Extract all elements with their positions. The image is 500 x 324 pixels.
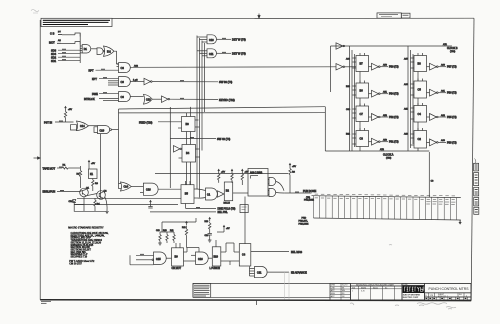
wire C9 out [131, 81, 145, 83]
svg-text:PST IN: PST IN [44, 121, 52, 124]
strip left end [192, 283, 194, 297]
wire E2 out down to C8 [114, 51, 119, 64]
svg-text:ELECTRIC CORP: ELECTRIC CORP [403, 297, 419, 299]
svg-text:R1: R1 [63, 164, 67, 166]
svg-text:C8: C8 [431, 181, 435, 183]
svg-text:A61: A61 [441, 90, 446, 93]
svg-text:C15: C15 [156, 258, 161, 261]
svg-text:C4: C4 [242, 254, 246, 257]
wire B3 to B4 [187, 132, 191, 145]
resistor R12 [182, 222, 188, 248]
wire to inverter [152, 98, 161, 100]
svg-text:MULTI: MULTI [224, 203, 231, 205]
title text PUNCH CONTROL MTRS [425, 283, 471, 292]
wire emitter rail [74, 203, 107, 212]
input row MOT [49, 39, 80, 44]
bus vertical lines [197, 36, 205, 198]
connecting wires bottom row [130, 243, 234, 265]
+5V supply [88, 161, 95, 170]
wire stubs into gate C10 [197, 37, 207, 42]
and gate D1 [82, 45, 91, 53]
svg-text:C9: C9 [121, 80, 125, 84]
+5V pullup R6 [231, 169, 233, 183]
svg-text:SEC/PRES T10: SEC/PRES T10 [71, 256, 88, 259]
svg-text:CR MOT: CR MOT [172, 267, 182, 270]
svg-text:KB ADVANCE: KB ADVANCE [291, 271, 307, 274]
svg-text:C06: C06 [346, 109, 351, 111]
buffer B8 output [427, 63, 457, 70]
input labels KPT row [92, 78, 119, 85]
transistor Q2 [97, 191, 108, 200]
wire D1 out [91, 48, 97, 50]
BEL PNL label row [150, 211, 228, 214]
svg-text:C10: C10 [209, 39, 214, 42]
merge wires [276, 182, 285, 194]
wire B9 to E4 [187, 260, 196, 262]
svg-text:C4: C4 [418, 112, 422, 116]
svg-text:CR1: CR1 [69, 201, 74, 203]
svg-text:+5V: +5V [221, 172, 225, 174]
svg-text:PB4 (T2): PB4 (T2) [389, 93, 399, 96]
note box [41, 18, 112, 26]
ladder end arrow [459, 220, 462, 225]
+5V pullup R5 [218, 169, 226, 183]
resistor R3 [92, 179, 99, 192]
wire row links left column [359, 74, 361, 151]
input grid gate E5 [250, 267, 255, 277]
svg-text:D1: D1 [84, 48, 88, 51]
and gate E4 [191, 248, 208, 265]
svg-text:C1: C1 [207, 194, 211, 197]
flip-flop B6 [346, 81, 369, 101]
+5V pullup [64, 107, 72, 123]
wire stubs into gate C11 [197, 51, 207, 56]
buffer B6 output [369, 90, 399, 97]
svg-text:PB8 (T2): PB8 (T2) [389, 66, 399, 69]
svg-text:A14 C BAR: A14 C BAR [250, 172, 262, 175]
wire C10 out to DET label [217, 38, 246, 42]
parts list block [193, 283, 211, 297]
svg-text:L PUNCH: L PUNCH [210, 267, 221, 270]
svg-text:RPT: RPT [89, 69, 94, 72]
inverter C21 on clock line [336, 43, 345, 49]
clock feed vertical to ladder [429, 152, 434, 197]
microfilm tick row [425, 297, 471, 300]
svg-text:SW 30 (T4): SW 30 (T4) [219, 80, 232, 84]
svg-text:A53: A53 [383, 139, 388, 142]
svg-text:(T10): (T10) [386, 158, 391, 160]
flip-flop B3 [178, 107, 200, 132]
svg-text:C5: C5 [418, 88, 422, 92]
flip-flop B4 [179, 145, 201, 163]
FEED label [139, 122, 182, 125]
inverter C12 [144, 78, 152, 85]
bottom tick below frame [256, 300, 258, 305]
svg-text:A51: A51 [383, 91, 388, 94]
buffer C7 output [369, 114, 399, 121]
input labels DWE row [84, 93, 119, 101]
svg-text:CLOCK A: CLOCK A [383, 154, 394, 157]
or gate C18 [140, 183, 158, 195]
PUN DONE wire [285, 190, 317, 202]
inverter C20 [174, 146, 182, 153]
svg-text:A50: A50 [383, 64, 388, 67]
svg-text:PRD: PRD [302, 218, 307, 220]
wire CLOCK B [331, 43, 458, 92]
wire CLOCK A [325, 107, 429, 160]
svg-text:TAPE MOT: TAPE MOT [43, 167, 56, 170]
svg-text:CM SI-1757: CM SI-1757 [69, 263, 82, 266]
svg-text:ERRL/PUN: ERRL/PUN [43, 191, 56, 194]
svg-text:R8: R8 [292, 172, 296, 174]
or gate C13 [144, 94, 153, 104]
relay coil box K1 [89, 169, 98, 179]
frame left border [39, 20, 41, 300]
flip-flop C5 [404, 79, 427, 101]
svg-text:83096: 83096 [361, 287, 366, 289]
approvals section [330, 283, 351, 300]
svg-text:MOT: MOT [49, 40, 55, 44]
svg-text:C18: C18 [146, 189, 151, 192]
resistor R2 [77, 166, 82, 188]
buffer B7 output [369, 63, 399, 70]
svg-text:DNE PULS (T9): DNE PULS (T9) [218, 208, 236, 211]
horizontal rail upper [155, 173, 288, 175]
left margin arrow [34, 157, 41, 159]
and gate D2 [97, 48, 105, 55]
svg-text:PRD,DNE: PRD,DNE [304, 200, 314, 202]
svg-text:JM: JM [342, 296, 345, 298]
svg-text:INTRLCK: INTRLCK [84, 98, 95, 101]
flip-flop C3 [346, 128, 369, 149]
svg-text:C19: C19 [100, 129, 105, 132]
pencil scribble notes [350, 245, 456, 309]
svg-text:DET W (T6): DET W (T6) [232, 52, 246, 56]
long bus wire pair [119, 107, 326, 113]
one-shot C23 [230, 197, 289, 267]
capacitor C13 and resistor R13 stack [205, 218, 212, 241]
svg-text:K1: K1 [90, 173, 94, 176]
svg-text:B10: B10 [214, 256, 219, 259]
ground G1 [103, 198, 109, 214]
wire C11 out to DET label [217, 52, 246, 56]
wire C8 out long to right block [131, 64, 337, 81]
svg-text:C3: C3 [360, 137, 364, 141]
vertical riser left [169, 107, 171, 188]
svg-text:C2: C2 [418, 137, 422, 141]
capacitor C22 below C18 [148, 201, 152, 209]
svg-text:A08: A08 [346, 58, 351, 61]
svg-text:C14: C14 [124, 186, 129, 189]
wire C18 out to B5 [158, 188, 181, 190]
wire C17 to C19 [89, 125, 98, 127]
one-shot B9 [166, 243, 187, 270]
svg-text:C13: C13 [146, 99, 151, 102]
wire riser from SW40 region down to one-shots [162, 218, 196, 232]
passive row resistors RC1 [156, 230, 175, 243]
PST IN label [44, 121, 74, 124]
wire to SW 30 label [152, 80, 232, 84]
nand gate C8 [119, 63, 131, 73]
one-shot B2 [224, 182, 233, 205]
svg-text:+5V: +5V [68, 109, 72, 111]
svg-text:DRN: DRN [331, 285, 336, 287]
diode CR1 [69, 200, 77, 204]
buffer C4 output [427, 114, 457, 121]
svg-text:C12: C12 [156, 230, 161, 232]
strip bottom line left part [193, 296, 330, 298]
wire Q1 to Q2 [86, 194, 97, 196]
and gate E5 [255, 267, 268, 278]
ladder bottom rail [314, 218, 461, 220]
svg-text:Q1: Q1 [86, 187, 90, 189]
input rows SD bus [51, 48, 80, 63]
svg-text:PB6 (T2): PB6 (T2) [447, 92, 457, 95]
svg-text:PUN DONE: PUN DONE [303, 190, 317, 193]
flip-flop C4 [404, 103, 427, 125]
svg-text:B5: B5 [185, 192, 189, 196]
svg-text:SW 40 (T4): SW 40 (T4) [217, 137, 230, 141]
svg-text:1: 1 [352, 291, 353, 293]
top stamp box [377, 13, 410, 18]
svg-text:CLOCK B: CLOCK B [447, 47, 458, 50]
buffer C2 output [427, 139, 457, 146]
under-frame drawing number text [41, 301, 51, 303]
horizontal rail bottom [74, 204, 178, 206]
nand gate C11 [207, 49, 217, 58]
gate E2 [268, 188, 276, 196]
svg-text:BEL MAG: BEL MAG [291, 251, 302, 254]
+5V pullup R7 [241, 169, 249, 185]
svg-text:CODE: CODE [403, 284, 408, 286]
svg-text:SD2: SD2 [51, 55, 57, 59]
ground G3 [208, 240, 212, 242]
svg-text:KPT: KPT [92, 78, 97, 81]
flip-flop B5 [181, 181, 198, 208]
vertical riser PST net [118, 109, 120, 189]
driver box A14 [248, 169, 268, 197]
ERRL/PUN label [43, 190, 80, 193]
svg-text:MACRO STANDARD REGISTRY: MACRO STANDARD REGISTRY [68, 227, 104, 230]
svg-text:PUNCH CONTROL MTRS: PUNCH CONTROL MTRS [429, 287, 470, 291]
svg-text:+5V: +5V [292, 166, 296, 168]
svg-text:E-2: E-2 [107, 51, 111, 54]
svg-text:C16: C16 [198, 258, 203, 261]
flip-flop C7 [346, 104, 369, 125]
wire C6 out [131, 96, 144, 98]
wire B4 down to B5 [187, 162, 191, 185]
input wires to gate E3 [136, 254, 154, 260]
frame right border [471, 18, 474, 300]
series resistor R1 [62, 164, 68, 169]
drawing number cells [425, 293, 471, 298]
svg-text:(T10): (T10) [450, 51, 455, 53]
gate E1 [268, 177, 276, 185]
and gate E3 [154, 252, 167, 264]
frame top border [41, 17, 474, 20]
svg-text:+5V: +5V [91, 163, 95, 165]
svg-text:PB5 (T2): PB5 (T2) [447, 116, 457, 119]
ladder pin labels [315, 194, 456, 204]
wire B2 out [233, 192, 248, 194]
svg-text:C8: C8 [121, 66, 125, 70]
ground G2 [158, 243, 162, 245]
svg-text:C7: C7 [360, 112, 364, 116]
wire Q1 emitter down [83, 197, 85, 205]
svg-text:B6: B6 [360, 89, 364, 93]
horizontal rail lower [77, 197, 181, 199]
transistor Q1 [80, 187, 90, 197]
svg-text:B8: B8 [418, 62, 422, 66]
flip-flop B8 [404, 53, 427, 74]
buffer D4 [218, 191, 225, 197]
svg-text:PB3 (T2): PB3 (T2) [447, 141, 457, 144]
svg-text:R3: R3 [95, 183, 99, 185]
svg-text:A2: A2 [58, 39, 61, 42]
svg-text:PB2 (T2): PB2 (T2) [389, 116, 399, 119]
inverter C22 on data line [336, 64, 356, 70]
svg-text:C B: C B [50, 32, 55, 36]
svg-text:DET W (T6): DET W (T6) [232, 38, 246, 42]
vertical wire from C19 down [100, 134, 102, 199]
bus verticals left column [350, 46, 355, 151]
or gate C17 [77, 121, 89, 131]
input bus vertical [79, 33, 81, 63]
svg-text:3-6-70: 3-6-70 [342, 285, 347, 287]
svg-text:C6: C6 [121, 95, 125, 99]
input bracket C16 [71, 125, 77, 130]
wire E5 to KB ADVANCE [267, 271, 289, 273]
svg-text:SH: SH [459, 294, 462, 296]
nand gate C19 [94, 126, 112, 134]
nand gate C6 [119, 92, 131, 102]
svg-text:B12: B12 [346, 134, 351, 136]
wire to KEYBD label [170, 98, 235, 102]
note tag box [240, 205, 248, 213]
and gate C1 [198, 188, 218, 200]
svg-text:SD4: SD4 [51, 52, 57, 56]
right margin revision strip [474, 159, 479, 215]
corner handwriting mark [31, 10, 39, 14]
svg-text:A52: A52 [383, 114, 388, 117]
revision table [351, 283, 403, 300]
svg-text:ENG: ENG [331, 293, 336, 295]
svg-text:BEL PNL: BEL PNL [218, 211, 229, 214]
nand gate C10 [207, 35, 217, 44]
svg-text:DWE: DWE [92, 93, 98, 96]
or gate E2 [104, 46, 115, 56]
wire C19 out to vertical [112, 129, 119, 131]
fold line verticals [285, 272, 290, 300]
logo block TELETYPE [402, 283, 425, 300]
svg-text:C11: C11 [209, 53, 214, 56]
svg-text:SD8: SD8 [51, 48, 57, 52]
flip-flop B7 [346, 53, 369, 74]
svg-text:PB1 (T2): PB1 (T2) [389, 141, 399, 144]
buffer C5 output [427, 89, 457, 96]
svg-text:B2: B2 [226, 190, 230, 193]
or gate C14b [119, 182, 132, 191]
svg-text:B9: B9 [175, 255, 179, 259]
svg-text:KEYBD (T10): KEYBD (T10) [219, 98, 235, 102]
wire C14 to C18 [131, 185, 143, 187]
svg-text:R13: R13 [205, 221, 210, 223]
svg-text:A60: A60 [441, 64, 446, 67]
+5V pullup R8 [289, 164, 297, 194]
one-shot B10 [208, 240, 230, 270]
frame bottom border [40, 299, 471, 302]
svg-text:B3: B3 [186, 122, 190, 126]
svg-text:C11: C11 [257, 272, 262, 275]
nand gate C9 [119, 77, 131, 87]
top margin tick arrow [258, 14, 260, 19]
svg-text:B7: B7 [360, 62, 364, 66]
input labels RPT row [89, 64, 119, 72]
wire bus to gate D1 [80, 46, 82, 53]
svg-text:FEED (T10): FEED (T10) [139, 122, 153, 125]
svg-text:A62: A62 [441, 114, 446, 117]
svg-text:B10: B10 [346, 86, 351, 88]
+5V feed right [217, 226, 230, 233]
svg-text:PB7 (T2): PB7 (T2) [447, 66, 457, 69]
svg-text:Q2: Q2 [104, 191, 108, 193]
svg-text:3-70: 3-70 [361, 291, 365, 293]
bus verticals right column [408, 46, 413, 151]
TAPE MOT label [43, 167, 64, 170]
ladder left labels [299, 218, 309, 226]
svg-text:R12: R12 [182, 227, 187, 229]
buffer C3 output [369, 138, 399, 145]
svg-text:PRD,DNE: PRD,DNE [299, 223, 309, 225]
svg-text:P7: P7 [58, 31, 61, 33]
strip top line [193, 282, 471, 284]
ladder top rail [312, 196, 461, 198]
svg-text:B4: B4 [186, 151, 190, 155]
resistor R4 [94, 199, 101, 212]
svg-text:84121: 84121 [373, 287, 378, 289]
ladder rungs [314, 196, 457, 220]
svg-text:+5V: +5V [226, 228, 230, 230]
input row C B [50, 31, 80, 36]
wire row links right column [417, 74, 419, 151]
svg-text:PRD,BTL: PRD,BTL [299, 221, 309, 223]
svg-text:C14: C14 [80, 125, 85, 128]
svg-text:(T9): (T9) [306, 197, 310, 199]
DNE PULS label row [186, 207, 236, 210]
inverter C15 [162, 96, 170, 103]
svg-text:A63: A63 [441, 139, 446, 142]
SW 40 label row [170, 137, 230, 141]
flip-flop C2 [404, 128, 427, 151]
wire to Q1 base [68, 167, 80, 169]
svg-text:1 µS: 1 µS [133, 79, 138, 81]
svg-text:SD1: SD1 [51, 59, 57, 63]
